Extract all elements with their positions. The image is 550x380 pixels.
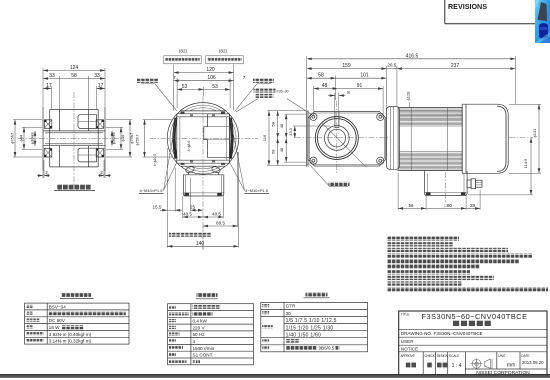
cable gland: [467, 179, 482, 189]
svg-text:18 W: 18 W: [49, 325, 60, 330]
svg-text:CHECK: CHECK: [425, 354, 436, 358]
svg-text:140: 140: [196, 241, 205, 247]
svg-text:ϕ141: ϕ141: [532, 128, 537, 138]
notes list: [387, 237, 459, 241]
center line horizontal: [18, 137, 122, 139]
dim 2 left: [37, 160, 50, 178]
dim phi44 right: [106, 127, 125, 149]
svg-text:48: 48: [322, 83, 328, 89]
dim 33 58 33: [43, 73, 105, 109]
svg-text:1/40 1/50 1/60: 1/40 1/50 1/60: [286, 332, 321, 338]
third angle projection symbol: [471, 358, 493, 369]
center horizontal: [150, 137, 258, 139]
band bolt marks: [181, 112, 185, 114]
motor stator body: [398, 108, 462, 171]
svg-text:TITLE: TITLE: [401, 313, 410, 317]
svg-text:1 : 4: 1 : 4: [452, 363, 462, 369]
svg-text:40.5: 40.5: [212, 212, 221, 217]
dim 120: [174, 65, 234, 111]
bearing bottom-left: [44, 149, 52, 158]
svg-text:ϕ44: ϕ44: [19, 134, 24, 141]
svg-text:17: 17: [46, 83, 52, 89]
label 4-M10xP1.5 right: [229, 115, 269, 194]
svg-text:DATE: DATE: [521, 354, 529, 358]
fan cover circle inner: [170, 105, 236, 171]
svg-text:SCALE: SCALE: [449, 354, 459, 358]
svg-text:53: 53: [182, 84, 188, 90]
svg-text:4−ϕ8.6: 4−ϕ8.6: [187, 141, 191, 152]
svg-text:56: 56: [408, 203, 414, 208]
boxed note screw cap right: [206, 56, 243, 64]
dim phi141: [509, 104, 541, 173]
svg-text:15.5: 15.5: [153, 205, 162, 210]
svg-text:25: 25: [190, 205, 196, 210]
content groups inserted below: [10, 65, 134, 191]
svg-text:GTR: GTR: [286, 304, 296, 309]
svg-text:DESIGN: DESIGN: [437, 354, 449, 358]
stator fins top: [399, 108, 462, 126]
svg-text:USER: USER: [401, 339, 414, 344]
svg-text:UNIT: UNIT: [498, 354, 505, 358]
svg-text:8: 8: [347, 90, 350, 95]
svg-text:(82): (82): [219, 49, 228, 54]
inner C outline: [204, 114, 230, 158]
bore phi30h8 lines: [43, 130, 105, 132]
svg-text:mm: mm: [507, 362, 515, 368]
svg-text:33: 33: [49, 73, 55, 79]
approval names: [406, 363, 411, 368]
title block frame: [399, 311, 547, 375]
flange bottom band lines: [177, 159, 230, 161]
dim 8: [328, 90, 350, 111]
svg-text:220 V: 220 V: [193, 326, 206, 331]
flange face label left: [137, 79, 177, 111]
svg-text:BSV−04: BSV−04: [49, 305, 66, 310]
dim phi75h7 left: [10, 120, 43, 157]
svg-text:159: 159: [342, 63, 351, 69]
hub body outer faces: [42, 107, 44, 172]
svg-text:F35−30: F35−30: [277, 89, 289, 93]
svg-text:F3S30N5~60−CNV040TBCE: F3S30N5~60−CNV040TBCE: [421, 312, 527, 321]
svg-text:ϕ44: ϕ44: [120, 134, 125, 141]
dim 159 20.5 237: [307, 63, 516, 110]
revisions box: [444, 0, 446, 24]
svg-text:7: 7: [173, 75, 176, 80]
bottom dim 140: [167, 152, 238, 248]
corner screw top-right: [377, 113, 384, 120]
screw cap note: [236, 89, 312, 115]
svg-text:9B6/0.5: 9B6/0.5: [319, 346, 335, 351]
svg-text:1/15 1/20 1/25 1/30: 1/15 1/20 1/25 1/30: [286, 325, 334, 331]
hub top and bottom edges: [50, 109, 98, 111]
center lines side view: [295, 137, 389, 139]
svg-text:2: 2: [45, 170, 48, 175]
flange face double line: [306, 111, 308, 167]
dim phi30h8 left: [30, 131, 36, 146]
reducer spec table: [261, 292, 368, 352]
svg-text:2: 2: [100, 170, 103, 175]
fan cover note: [169, 233, 211, 237]
dim 53 53: [177, 84, 230, 96]
bottom window band: [0, 374, 550, 378]
motor spec table: [168, 293, 254, 365]
svg-text:33: 33: [94, 73, 100, 79]
svg-text:2013.09.20: 2013.09.20: [522, 360, 544, 365]
svg-text:4−M10×P1.5: 4−M10×P1.5: [245, 188, 269, 193]
fan cover circle outer: [167, 103, 238, 174]
svg-text:48: 48: [279, 123, 284, 128]
corner screw bottom-right: [377, 157, 384, 164]
svg-text:58: 58: [271, 121, 276, 126]
svg-text:124: 124: [70, 65, 79, 71]
brake spec table: [25, 293, 129, 345]
svg-text:58: 58: [271, 149, 276, 154]
corner screw top-left: [310, 113, 317, 120]
corner screw bottom-left: [310, 157, 317, 164]
hub body inner verticals: [49, 110, 51, 167]
flange face label side: [308, 163, 350, 187]
svg-text:114.5: 114.5: [523, 158, 528, 168]
boxed note screw cap left: [164, 56, 201, 64]
bearing top-left: [44, 120, 52, 129]
svg-text:58: 58: [318, 73, 324, 79]
bottom dim 69.5: [203, 152, 238, 250]
svg-text:28: 28: [470, 203, 476, 208]
svg-text:ϕ128: ϕ128: [406, 91, 411, 101]
terminal box front: [183, 172, 224, 196]
keyway slot: [334, 112, 336, 128]
fan cover ears: [185, 166, 195, 174]
svg-text:(82): (82): [179, 49, 188, 54]
svg-text:DRAWING NO. F3S30N−CNV040TBCE: DRAWING NO. F3S30N−CNV040TBCE: [401, 331, 483, 336]
svg-text:17: 17: [98, 83, 104, 89]
label phi128: [406, 91, 411, 108]
dim 56 80 28 bottom: [398, 173, 480, 210]
gearbox octagon outer: [308, 112, 386, 167]
dim 17 left: [43, 83, 52, 109]
svg-text:20.5: 20.5: [387, 63, 396, 68]
svg-text:50 Hz: 50 Hz: [193, 332, 206, 337]
svg-text:1/5 1/7.5 1/10 1/12.5: 1/5 1/7.5 1/10 1/12.5: [286, 318, 337, 324]
svg-text:ϕ30H8: ϕ30H8: [111, 132, 116, 145]
fan cover rear: [462, 104, 508, 173]
svg-text:91: 91: [357, 83, 363, 89]
svg-text:106: 106: [207, 75, 216, 81]
bottom dim 40.5 left: [183, 196, 203, 218]
svg-text:B: B: [193, 359, 196, 364]
svg-text:101: 101: [360, 73, 369, 79]
svg-text:□80: □80: [444, 203, 452, 208]
svg-text:3.92N·m (0.40kgf·m): 3.92N·m (0.40kgf·m): [49, 332, 92, 337]
svg-text:ϕ75h7: ϕ75h7: [135, 134, 140, 146]
dim 114.5: [468, 138, 533, 195]
svg-text:ϕ75h7: ϕ75h7: [10, 132, 15, 144]
terminal box side: [424, 171, 467, 203]
svg-text:58: 58: [71, 73, 77, 79]
svg-text:1500 r/min: 1500 r/min: [193, 346, 215, 351]
svg-text:NOTICE: NOTICE: [401, 347, 418, 352]
output boss arc right (thick): [230, 118, 232, 159]
label output shaft detail: [54, 185, 95, 191]
svg-text:4: 4: [193, 339, 196, 344]
dim 2 right: [98, 160, 111, 178]
gear flange square: [177, 111, 230, 166]
mask square interior: [177, 111, 230, 166]
dim 416.5: [307, 53, 516, 110]
dim phi44 left: [19, 127, 43, 149]
label 4-M10xP1.5 left: [139, 115, 177, 194]
bearing top-right: [96, 120, 104, 129]
svg-text:DC 90V: DC 90V: [49, 318, 66, 323]
svg-text:120: 120: [206, 67, 215, 73]
svg-text:0.4 kW: 0.4 kW: [193, 319, 208, 324]
motor adapter: [387, 107, 400, 170]
svg-text:30: 30: [286, 311, 292, 316]
dim 48 91: [314, 83, 384, 114]
svg-text:3.14N·m (0.32kgf·m): 3.14N·m (0.32kgf·m): [49, 339, 92, 344]
dim phi30h8 right: [111, 131, 116, 146]
bottom dim 40.5 right: [203, 196, 223, 218]
bottom dim 15.5: [153, 148, 182, 212]
svg-text:APPROVE: APPROVE: [401, 354, 415, 358]
svg-text:116: 116: [262, 134, 267, 141]
svg-text:ϕ30H8: ϕ30H8: [30, 132, 35, 145]
svg-text:40.5: 40.5: [183, 212, 192, 217]
center vertical: [202, 96, 204, 250]
svg-text:53: 53: [212, 84, 218, 90]
svg-text:S1 CONT.: S1 CONT.: [193, 353, 214, 358]
dim 116 58 48 33.3 stack: [262, 111, 330, 166]
flange top band lines: [177, 113, 230, 115]
stator fins bottom: [399, 152, 462, 170]
dim 7 106 7: [173, 75, 246, 108]
svg-text:237: 237: [451, 63, 460, 69]
svg-text:ϕ75h7: ϕ75h7: [129, 132, 134, 144]
keyway block bottom: [78, 148, 97, 162]
svg-text:33.3: 33.3: [288, 127, 293, 136]
dim phi75h7 midview: [135, 120, 173, 157]
svg-text:REVISIONS: REVISIONS: [448, 2, 487, 11]
svg-text:7: 7: [243, 75, 246, 80]
bottom dim 25: [190, 178, 203, 212]
gearbox octagon inner: [310, 113, 385, 165]
svg-text:416.5: 416.5: [406, 53, 419, 59]
dim 17 right: [97, 83, 106, 109]
dim phi75h7 right: [106, 120, 134, 157]
svg-text:69.5: 69.5: [216, 221, 225, 226]
svg-text:48: 48: [279, 147, 284, 152]
svg-text:4−ϕ10.5: 4−ϕ10.5: [153, 154, 157, 167]
bearing bottom-right: [96, 149, 104, 158]
flange face label right: [235, 79, 274, 111]
svg-text:4−M10×P1.5: 4−M10×P1.5: [140, 188, 164, 193]
fan cover circle third: [173, 108, 234, 169]
output boss arc left (thick): [174, 118, 176, 159]
output boss circles: [315, 117, 358, 160]
dim 124: [43, 65, 105, 106]
center line vertical: [73, 92, 75, 186]
keyway block top: [78, 115, 97, 129]
dim 58 101: [307, 73, 387, 100]
